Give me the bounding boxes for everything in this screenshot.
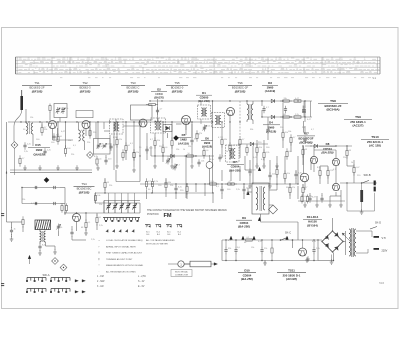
svg-text:15k: 15k [176, 149, 179, 151]
svg-text:TS11: TS11 [288, 269, 295, 273]
wire det corner [150, 146, 152, 156]
resistor R25b [66, 203, 68, 205]
resistor R5d [95, 192, 97, 195]
wire bridge top feed [332, 218, 334, 231]
mains terminals [374, 236, 380, 238]
ground G18 [340, 202, 342, 205]
press marks [106, 230, 108, 232]
resistor R14 [229, 142, 231, 145]
resistor R20 [256, 144, 258, 147]
test point TP2 [173, 135, 178, 140]
svg-text:8,2k: 8,2k [113, 137, 117, 139]
svg-text:‖: ‖ [98, 251, 99, 255]
coil T4 secondary [251, 104, 253, 120]
resistor R7 [125, 142, 127, 145]
label electrical connector [171, 270, 192, 277]
trimmer C6a [104, 144, 106, 146]
wire TS7 vertical [303, 121, 305, 132]
resistor R11 [171, 137, 173, 140]
coil L4 [83, 130, 85, 141]
coil L5b [44, 231, 46, 242]
ground G1 [24, 165, 26, 168]
resistor R30 [186, 183, 188, 186]
svg-text:D4: D4 [269, 121, 273, 125]
resistor R37 [327, 167, 329, 170]
capacitor C6 [122, 149, 124, 152]
wire AVC rail [10, 171, 92, 173]
wire left vertical rail [6, 122, 8, 222]
trimmer C12b [174, 164, 176, 167]
trimmer bank C27 [126, 201, 131, 214]
svg-text:(BA-250): (BA-250) [241, 277, 253, 281]
resistor R24 [22, 216, 24, 219]
svg-text:2,2k: 2,2k [24, 151, 28, 153]
mains transformer [349, 229, 351, 256]
svg-text:D9: D9 [242, 216, 246, 220]
IF transformer T5 [226, 145, 240, 162]
svg-text:1k: 1k [246, 193, 248, 195]
svg-text:D10: D10 [244, 269, 250, 273]
resistor R1 [41, 124, 43, 127]
electrolytic C36 [360, 190, 363, 202]
resistor R3 [65, 145, 67, 148]
wire det ground row [249, 183, 251, 186]
svg-text:22k: 22k [119, 139, 122, 141]
svg-text:POSITION: POSITION [147, 213, 159, 216]
capacitor C34 [309, 195, 311, 198]
connector node 1 [178, 261, 184, 267]
svg-text:47k: 47k [101, 146, 104, 148]
svg-text:1k: 1k [351, 162, 353, 164]
svg-text:2,2k: 2,2k [47, 150, 51, 152]
svg-text:FINE TUNING CAPACITOR ADJUS: FINE TUNING CAPACITOR ADJUST [106, 252, 143, 255]
resistor R29b [152, 178, 154, 181]
svg-text:L - 2,5V: L - 2,5V [138, 276, 146, 278]
svg-text:SW-B: SW-B [364, 173, 371, 177]
svg-text:10k: 10k [288, 131, 291, 133]
svg-text:(BA-250): (BA-250) [322, 151, 334, 155]
capacitor C37 [225, 247, 227, 250]
svg-text:(BF195): (BF195) [172, 90, 183, 94]
svg-text:D2: D2 [157, 88, 161, 92]
svg-text:2,2k: 2,2k [99, 225, 103, 227]
svg-text:22k: 22k [264, 248, 267, 250]
svg-text:8,2k: 8,2k [154, 181, 158, 183]
wafer comb A3 [27, 288, 46, 290]
resistor R18 [282, 129, 284, 132]
node test point D16 [11, 142, 18, 149]
IF transformer T3 [212, 113, 225, 128]
coil L5a [40, 231, 42, 242]
shield dashed line [239, 101, 241, 137]
svg-text:33k: 33k [224, 139, 227, 141]
svg-text:B-6: B-6 [167, 234, 170, 236]
capacitor C44 [157, 107, 159, 110]
wire det extra [252, 146, 254, 184]
wire IF verticals [116, 122, 118, 139]
polarity mark 3 [258, 217, 261, 220]
svg-text:ALL RESISTANCES IN OHMS: ALL RESISTANCES IN OHMS [106, 271, 136, 274]
polarity mark 2 [247, 191, 250, 194]
wire mid vertical b [185, 156, 187, 198]
AM trimmer box [94, 139, 111, 155]
svg-text:33k: 33k [168, 182, 171, 184]
diode D5 symbol [171, 154, 174, 157]
svg-text:SK-D: SK-D [375, 221, 381, 225]
resistor R33 [289, 184, 291, 187]
svg-text:←: ← [98, 244, 101, 248]
test point TP6 [60, 264, 67, 271]
wire TS5 links [167, 133, 169, 138]
wire power bottom rail [222, 260, 318, 262]
junction dots [25, 121, 26, 122]
svg-text:220V: 220V [382, 249, 388, 252]
wire IF row a [104, 130, 109, 132]
wire power top rail [222, 239, 322, 241]
resistor R48 [203, 147, 205, 150]
capacitor C22 [39, 243, 41, 246]
ground G17 [329, 202, 331, 205]
coil L2 [31, 123, 33, 134]
capacitor C33 [295, 171, 297, 174]
svg-text:33k: 33k [194, 139, 197, 141]
wire feedback ladder bottom [22, 203, 60, 205]
svg-text:TS6: TS6 [237, 81, 243, 85]
svg-text:LOCAL OSCILLATOR SIGNAL FRE: LOCAL OSCILLATOR SIGNAL FREQ [106, 239, 143, 242]
svg-text:TS2: TS2 [82, 81, 88, 85]
trimmer C5a [98, 144, 100, 146]
svg-text:→: → [98, 238, 101, 242]
transistor TS11 [299, 248, 307, 256]
capacitor C42 [219, 154, 221, 157]
svg-text:CONNECTOR: CONNECTOR [175, 275, 189, 277]
wafer arrows [75, 280, 78, 283]
wire ladder left [21, 188, 23, 204]
wafer comb A2 [51, 277, 70, 279]
capacitor C45 [53, 133, 55, 136]
ground G2 [39, 165, 41, 168]
svg-text:33k: 33k [250, 129, 253, 131]
capacitor C17 [249, 168, 251, 171]
volume control [206, 162, 213, 169]
ground TS11 [307, 256, 309, 259]
resistor R31 [207, 183, 210, 185]
capacitor C11 [191, 137, 193, 140]
wire output rows [314, 149, 336, 151]
resistor R47 [307, 195, 309, 197]
svg-text:22k: 22k [22, 199, 25, 201]
switch SW-B [362, 180, 369, 183]
svg-text:22k: 22k [302, 127, 305, 129]
svg-text:8,2k: 8,2k [211, 181, 215, 183]
wire ratio det verticals [256, 140, 258, 147]
svg-text:2,2k: 2,2k [207, 126, 211, 128]
resistor R29a [146, 178, 148, 181]
svg-text:8,2k: 8,2k [94, 156, 98, 158]
transistor TS9 [310, 156, 317, 163]
resistor R43 [49, 104, 51, 106]
capacitor CL3 [34, 203, 36, 205]
capacitor C15 [285, 106, 287, 109]
svg-text:SW-A: SW-A [43, 273, 50, 277]
resistor R38 [346, 147, 348, 150]
svg-text:47k: 47k [59, 227, 62, 229]
svg-text:V.Tr: V.Tr [382, 237, 387, 240]
capacitor C43 [198, 159, 200, 162]
svg-text:(BF195): (BF195) [128, 90, 139, 94]
svg-text:(AA119): (AA119) [178, 141, 188, 145]
pointer mark [28, 255, 31, 258]
capacitor C31 [221, 186, 223, 189]
wire mid rail [140, 183, 298, 185]
svg-text:3 - LW: 3 - LW [97, 286, 104, 288]
oscillator transformer T7 [198, 105, 211, 119]
svg-text:TS1: TS1 [34, 81, 40, 85]
transistor TS7 [300, 173, 308, 181]
svg-text:22k: 22k [71, 154, 74, 156]
capacitor CL2 [53, 187, 55, 189]
svg-text:TS7: TS7 [303, 132, 309, 136]
contact diagram symbols [145, 225, 151, 228]
svg-text:B-6: B-6 [178, 234, 181, 236]
ground G22 [264, 260, 266, 263]
svg-text:22k: 22k [188, 146, 191, 148]
transistor TS4 [73, 214, 81, 222]
svg-text:2,2k: 2,2k [295, 114, 299, 116]
driver transformer T6 [252, 183, 269, 214]
svg-text:D1: D1 [202, 91, 206, 95]
band footnote marks [60, 77, 371, 79]
svg-text:22k: 22k [99, 204, 102, 206]
ground G13 [54, 249, 56, 252]
svg-text:22k: 22k [87, 142, 90, 144]
resistor R39 [353, 164, 355, 167]
capacitor C16 [304, 136, 306, 139]
trimmer bank C28 [132, 201, 137, 214]
svg-text:15k: 15k [259, 147, 262, 149]
resistor R36 [319, 167, 321, 170]
svg-text:1k: 1k [226, 151, 228, 153]
resistor R5c [133, 149, 135, 152]
capacitor C9 [110, 143, 112, 146]
resistor R29 [165, 179, 167, 182]
svg-text:8,2k: 8,2k [178, 187, 182, 189]
capacitor C30 [175, 185, 177, 188]
capacitor C10 [146, 146, 148, 149]
wire mid vertical a [212, 101, 214, 193]
wire mid stub [116, 181, 140, 183]
coil L3 [79, 130, 81, 141]
IF transformer T2 [151, 118, 166, 133]
wire under TS2 [95, 122, 97, 139]
wire mains upper [356, 230, 372, 232]
wire feedback ladder top [22, 187, 60, 189]
resistor R42 [196, 130, 198, 133]
wire osc coil top [246, 101, 248, 104]
svg-text:(BA170): (BA170) [154, 97, 164, 100]
svg-text:(BC549A): (BC549A) [326, 108, 339, 112]
trimmer C2 [62, 107, 64, 110]
connector arrows power [230, 236, 233, 239]
capacitor C4 [44, 148, 46, 151]
wire driver links [245, 169, 252, 171]
svg-text:15k: 15k [45, 223, 48, 225]
svg-text:SK-C: SK-C [285, 231, 291, 235]
capacitor C23 [71, 229, 73, 232]
ground G20 [306, 257, 308, 260]
test point TP4 [87, 152, 94, 159]
ground G6 [116, 163, 118, 166]
resistor R5 [96, 157, 98, 159]
svg-text:TS8: TS8 [330, 99, 336, 103]
ground G21 [331, 259, 333, 262]
resistor R23 [284, 170, 286, 173]
svg-text:2,2k: 2,2k [298, 173, 302, 175]
ground G10 [191, 163, 193, 166]
svg-text:22k: 22k [44, 129, 47, 131]
bridge rectifier D11-D14 [322, 231, 343, 252]
svg-text:D5: D5 [182, 133, 186, 137]
resistor R22 [276, 166, 278, 169]
svg-text:B+5: B+5 [167, 231, 170, 233]
capacitor C40 [313, 247, 315, 250]
capacitor C32 [243, 186, 245, 189]
resistor R35 [302, 184, 304, 187]
svg-text:B-6: B-6 [146, 234, 149, 236]
wire mixer verticals [221, 122, 223, 139]
ground G14 [85, 230, 87, 233]
wire ladder right [60, 187, 65, 189]
svg-text:1N60: 1N60 [204, 141, 211, 145]
wire right upper rail [305, 145, 352, 147]
resistor R45 [286, 148, 288, 151]
svg-text:8,2k: 8,2k [266, 152, 270, 154]
transistor TS2 [82, 121, 90, 129]
coil T4 primary [247, 104, 249, 120]
svg-text:8,2k: 8,2k [210, 159, 214, 161]
svg-text:E - 6V: E - 6V [138, 286, 145, 288]
trimmer box [54, 104, 67, 118]
svg-text:1k: 1k [183, 149, 185, 151]
resistor R49 [146, 104, 149, 106]
svg-text:D11-D14: D11-D14 [307, 215, 319, 219]
wire audio verticals [146, 190, 148, 199]
wave band switch bank [108, 193, 110, 201]
trimmer bank C26 [119, 201, 124, 214]
resistor R17 [280, 116, 283, 118]
capacitor CL4 [53, 203, 55, 205]
transistor TS5 [182, 116, 191, 125]
wire TS4 verticals [11, 222, 13, 228]
svg-text:33k: 33k [286, 187, 289, 189]
transistor TS1 [49, 121, 57, 129]
svg-text:B-6: B-6 [157, 234, 160, 236]
diode D4 symbol [271, 115, 274, 118]
capacitor C20 [11, 227, 13, 230]
svg-text:(AA119): (AA119) [202, 145, 212, 149]
capacitor C3 [24, 142, 26, 145]
alignment table text texture [19, 58, 380, 73]
svg-text:2,2k: 2,2k [236, 189, 240, 191]
resistor R46 [301, 195, 303, 197]
speaker terminals [374, 181, 376, 186]
svg-text:(AC127): (AC127) [353, 124, 364, 128]
ground G11 [39, 250, 41, 253]
diode D3 symbol [271, 99, 274, 102]
transistor TS6 [227, 108, 235, 116]
wafer comb A4 [51, 288, 70, 290]
resistor R28 [104, 179, 106, 182]
resistor R10 [162, 144, 164, 147]
wire FM tuner verticals [25, 112, 27, 123]
wire left lower [7, 221, 23, 223]
ferrite rod aerial [35, 220, 51, 230]
svg-text:22k: 22k [170, 185, 173, 187]
resistor R13 [221, 136, 223, 139]
diode D8 symbol [314, 144, 317, 147]
thermistor diamond [269, 205, 278, 214]
svg-text:(AC128): (AC128) [286, 277, 297, 281]
wire diode chain mid [151, 155, 214, 157]
capacitor CL1 [34, 187, 36, 189]
resistor R34 [302, 146, 304, 149]
resistor R19 [290, 134, 292, 137]
connector loop [184, 261, 211, 267]
wire transformer link [343, 241, 346, 243]
wire output row [340, 182, 377, 184]
resistor R41 [271, 245, 273, 248]
tuning gang capacitor [58, 224, 60, 227]
wire audio rail [95, 192, 213, 194]
alignment table column ticks [34, 57, 358, 74]
ground G5 [97, 165, 99, 168]
resistor R8 [133, 149, 135, 152]
svg-text:22k: 22k [159, 146, 162, 148]
diode D7 symbol [250, 142, 253, 145]
ground G4 [76, 165, 78, 168]
svg-text:(BF195): (BF195) [80, 90, 91, 94]
trimmer C12 [167, 158, 169, 161]
wire audio rail 2 [95, 202, 140, 204]
resistor R26 [96, 214, 98, 217]
wire mid vertical c [139, 122, 141, 182]
svg-text:ALL VOLTAGES MEASURED: ALL VOLTAGES MEASURED [146, 239, 175, 242]
resistor R44 [246, 144, 248, 147]
svg-text:D6: D6 [205, 137, 209, 141]
svg-text:22k: 22k [109, 185, 112, 187]
transistor TS8 [332, 158, 339, 165]
capacitor C35 [321, 195, 323, 198]
svg-text:THE CONTACT DIAGRAM OF THE WAF: THE CONTACT DIAGRAM OF THE WAFER SWITCH … [147, 209, 227, 212]
svg-text:33k: 33k [228, 248, 231, 250]
svg-text:10k: 10k [201, 161, 204, 163]
svg-text:WITH 20kO/V METER: WITH 20kO/V METER [146, 243, 168, 245]
svg-text:(BF195): (BF195) [235, 90, 246, 94]
transistor TS10 [332, 183, 339, 190]
svg-text:8,2k: 8,2k [317, 167, 321, 169]
trimmer bank C24 [106, 201, 111, 214]
shield box TS3 [131, 105, 153, 120]
margin mark a [1, 213, 4, 214]
svg-text:·: · [99, 270, 100, 274]
wire upper detector bus [150, 100, 312, 102]
svg-text:B+5: B+5 [178, 231, 181, 233]
svg-text:(AA119): (AA119) [266, 129, 276, 133]
resistor R21 [263, 149, 265, 152]
wire left ground rail [10, 169, 92, 171]
resistor R16 [280, 100, 283, 102]
svg-text:B+5: B+5 [146, 231, 149, 233]
